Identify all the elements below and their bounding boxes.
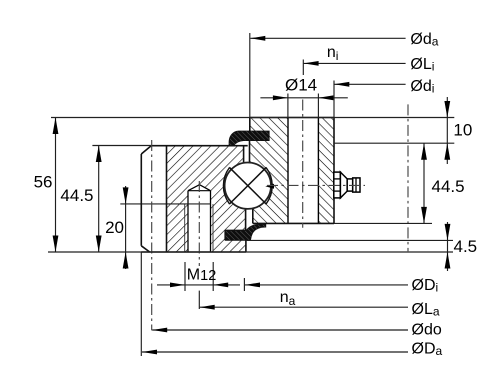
dimension 20 line	[125, 186, 127, 269]
arrowhead dimension Odi	[334, 82, 349, 87]
dimension Odi line	[334, 83, 405, 85]
dimension Oda line	[250, 37, 405, 39]
arrowhead dimension ODi	[245, 283, 260, 288]
svg-text:4.5: 4.5	[454, 237, 478, 256]
arrowheads dimension 10	[444, 101, 450, 118]
dimension Odo line	[152, 329, 408, 331]
svg-text:44.5: 44.5	[60, 186, 93, 205]
thread depth reference line (20)	[120, 203, 210, 205]
dimension 10 line	[446, 97, 448, 164]
svg-text:ØDi: ØDi	[412, 277, 439, 295]
extension line 44.5 left datum	[92, 145, 151, 147]
outer ring outline	[141, 146, 247, 252]
svg-text:20: 20	[105, 218, 124, 237]
arrowheads dimension M12	[170, 283, 185, 288]
M12 hole centerline	[198, 181, 200, 266]
extension line Odi	[333, 81, 335, 118]
svg-text:Ødo: Ødo	[412, 322, 442, 339]
svg-text:ØLi: ØLi	[410, 56, 434, 74]
svg-text:Ødi: Ødi	[410, 78, 434, 96]
arrowhead dimension OLa	[200, 305, 215, 310]
top seal	[229, 131, 269, 145]
mounting hole O14 in inner ring	[288, 117, 318, 224]
bearing axis centerline	[407, 104, 409, 251]
arrowheads dimension 56	[53, 118, 59, 135]
arrowheads dimension 44.5 right	[421, 143, 427, 160]
extension line 4.5 lip datum	[246, 239, 453, 241]
dimension OLi line	[304, 62, 406, 64]
extension line right 10/44.5 datum	[334, 142, 454, 144]
outer ring section hatching (left ring with gear band)	[167, 146, 246, 252]
top extension line (56 / 10 datum)	[51, 117, 454, 119]
arrowheads dimension 4.5	[445, 224, 451, 241]
dimension M12 line	[157, 284, 185, 286]
arrow at ball raceway	[265, 184, 274, 189]
threaded hole M12 in outer ring	[185, 185, 213, 252]
dimension 44.5 left line	[98, 146, 100, 253]
extension tick O14 right	[317, 94, 319, 118]
dimension 44.5 right line	[423, 143, 425, 223]
dimension 56 line	[55, 118, 57, 253]
extension line OLi	[302, 60, 304, 76]
inner ring section hatching (right ring with mounting holes)	[250, 118, 335, 224]
arrowhead dimension Oda	[250, 36, 265, 41]
bottom seal	[225, 224, 265, 240]
arrowhead dimension Odo	[152, 328, 167, 333]
ball (rolling element)	[225, 163, 271, 209]
dimension O14 line	[260, 97, 288, 99]
extension line ODa	[140, 252, 142, 356]
svg-text:ØLa: ØLa	[412, 301, 440, 319]
extension tick OLa	[198, 291, 200, 309]
extension tick O14 left	[287, 94, 289, 118]
svg-text:Øda: Øda	[410, 31, 438, 49]
arrowheads dimension 44.5 left	[96, 146, 102, 163]
arrowheads dimension O14	[273, 95, 288, 100]
svg-text:ØDa: ØDa	[412, 341, 443, 359]
extension tick ODi	[243, 278, 245, 291]
extension tick M12 left	[184, 262, 186, 291]
dimension ODa line	[142, 351, 408, 353]
arrowheads dimension 20	[123, 187, 129, 204]
raceway arc left	[223, 168, 229, 204]
raceway arc right	[266, 168, 272, 204]
inner ring outline	[250, 118, 335, 224]
O14 hole centerline	[302, 100, 304, 228]
svg-text:10: 10	[453, 121, 472, 140]
svg-text:M12: M12	[187, 266, 216, 284]
dimension 4.5 line	[447, 222, 449, 271]
grease nipple	[334, 172, 360, 198]
dimension OLa line	[200, 306, 408, 308]
bottom extension line (56 / 4.5 datum)	[48, 251, 453, 253]
arrowhead dimension ODa	[142, 350, 157, 355]
extension line inner ring bottom	[334, 222, 432, 224]
arrowhead dimension OLi	[304, 61, 319, 66]
gear pitch centerline (Odo)	[151, 140, 153, 330]
svg-text:Ø14: Ø14	[285, 76, 317, 95]
svg-text:56: 56	[34, 173, 53, 192]
grease nipple axis centerline	[267, 184, 365, 186]
svg-text:44.5: 44.5	[432, 177, 465, 196]
dimension ODi line	[245, 284, 408, 286]
extension tick M12 right	[212, 262, 214, 291]
extension line Oda	[249, 33, 251, 118]
ball contact-angle cross	[229, 167, 266, 204]
